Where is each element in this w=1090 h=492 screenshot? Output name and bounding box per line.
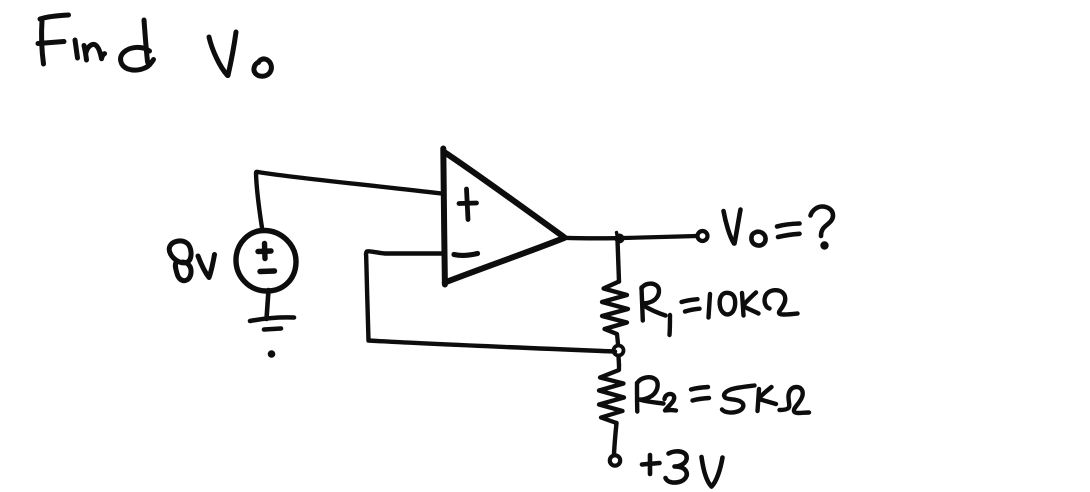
junction: output node dot [615,233,625,244]
terminal: Vo output [698,231,708,241]
label: R2 = 5K ohm [637,377,809,413]
label: Vo = ? [724,207,834,250]
label: R1 = 10K ohm [642,284,798,335]
wire: node A to R2 [616,356,621,365]
wire: source bottom to ground [267,290,269,319]
label: 8v (source value) [169,241,214,281]
wire: junction to Vo terminal [624,236,697,238]
label: +3 V [642,451,723,486]
op-amp U1 [443,149,564,285]
voltage source V1 (8V) [236,231,296,292]
ground [250,317,294,357]
terminal: +3V [610,455,620,465]
wire: R2 to +3V terminal [614,423,617,454]
wire: junction down to R1 [618,240,620,282]
resistor R2 [599,365,624,423]
wire: op-amp output to junction [565,236,617,241]
op-amp + input marker [459,189,477,220]
op-amp - input marker [454,254,478,256]
wire: source top to op-amp + input [256,172,442,231]
wire: feedback from - input to node A [366,251,615,351]
resistor R1 [602,282,628,345]
node A: R1/R2 junction [614,346,624,356]
label: title "Find Vo" [38,15,271,76]
